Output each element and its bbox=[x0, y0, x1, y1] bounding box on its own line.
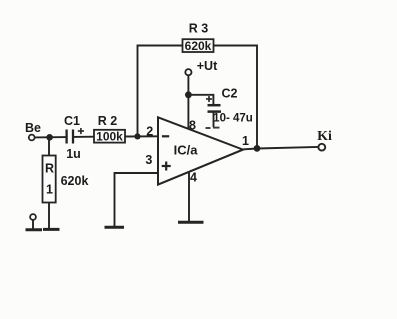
svg-text:4: 4 bbox=[190, 171, 197, 185]
capacitor C2 bbox=[206, 87, 253, 128]
wire feedback right (R3 down to output node) bbox=[214, 46, 258, 149]
svg-text:+Ut: +Ut bbox=[197, 59, 218, 73]
node A (input junction) bbox=[46, 134, 53, 141]
svg-text:1: 1 bbox=[46, 183, 53, 197]
svg-text:R 2: R 2 bbox=[98, 114, 118, 128]
wire C1 to R2 bbox=[73, 136, 94, 138]
resistor R3 bbox=[183, 22, 214, 54]
svg-text:10- 47u: 10- 47u bbox=[213, 113, 253, 125]
svg-text:R 3: R 3 bbox=[189, 22, 209, 36]
svg-text:8: 8 bbox=[189, 119, 196, 133]
svg-text:620k: 620k bbox=[61, 174, 89, 188]
terminal +Ut bbox=[185, 59, 218, 75]
svg-text:Ki: Ki bbox=[317, 129, 332, 144]
ground (pin 4) bbox=[178, 221, 204, 224]
wire feedback left (node B up to R3) bbox=[138, 46, 183, 137]
wire pin 4 to ground bbox=[188, 172, 190, 222]
svg-text:Be: Be bbox=[25, 121, 41, 135]
wire pin 3 to ground bbox=[115, 173, 159, 227]
svg-text:1: 1 bbox=[242, 134, 249, 148]
node C (supply junction) bbox=[185, 91, 192, 98]
svg-text:3: 3 bbox=[145, 153, 152, 167]
op-amp U1 IC/a bbox=[158, 117, 243, 184]
ground (below C2) bbox=[206, 127, 220, 129]
svg-text:R: R bbox=[45, 162, 54, 176]
terminal Be bbox=[25, 121, 41, 140]
ground (below bottom-left terminal) bbox=[26, 228, 43, 231]
svg-text:C2: C2 bbox=[222, 87, 238, 101]
node D (output junction) bbox=[254, 145, 261, 152]
wire +Ut to pin 8 bbox=[187, 75, 189, 129]
resistor R1 bbox=[43, 137, 89, 229]
node B (inverting input junction) bbox=[134, 133, 140, 139]
svg-text:C1: C1 bbox=[64, 114, 80, 128]
svg-text:2: 2 bbox=[146, 125, 153, 139]
capacitor C1 bbox=[64, 114, 84, 161]
wire output bbox=[242, 147, 318, 150]
svg-text:1u: 1u bbox=[66, 147, 81, 161]
svg-text:620k: 620k bbox=[185, 39, 212, 53]
terminal (bottom-left open circle) bbox=[30, 214, 36, 229]
resistor R2 bbox=[94, 114, 125, 144]
terminal Ki bbox=[317, 129, 332, 151]
ground (pin 3) bbox=[105, 226, 125, 229]
wire node C to C2 bbox=[188, 95, 213, 104]
wire R2 to op-amp pin 2 bbox=[125, 135, 158, 137]
ground (below R1) bbox=[43, 228, 60, 231]
wire Be to C1 bbox=[35, 136, 67, 138]
svg-text:IC/a: IC/a bbox=[174, 143, 199, 158]
svg-text:100k: 100k bbox=[96, 130, 123, 144]
